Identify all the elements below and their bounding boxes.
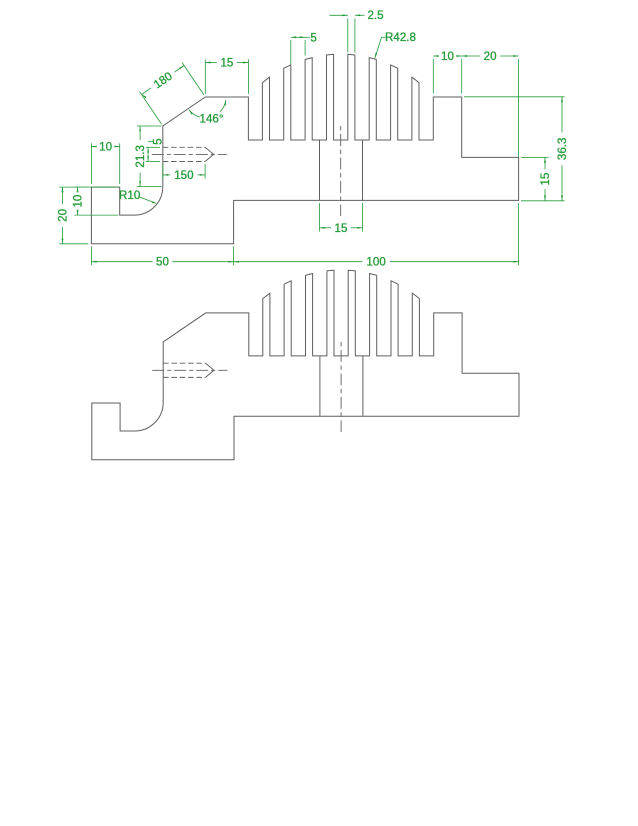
lower view tapped hole hidden line top (163, 362, 205, 364)
lower view tapped hole hidden line bottom (163, 376, 205, 378)
svg-text:10: 10 (441, 50, 454, 63)
svg-text:2.5: 2.5 (367, 9, 383, 22)
dimension 10 (432, 59, 434, 94)
svg-text:10: 10 (72, 195, 85, 208)
svg-text:36.3: 36.3 (556, 138, 569, 161)
top view slot wall right (362, 140, 364, 200)
dimension 100 (234, 261, 363, 263)
lower view hole axis centerline (152, 369, 227, 371)
lower view slot wall right (362, 356, 364, 416)
top view tapped hole hidden line bottom (163, 161, 205, 163)
svg-text:50: 50 (156, 256, 169, 269)
dimension 50 (90, 246, 92, 265)
svg-text:R42.8: R42.8 (385, 31, 416, 44)
svg-text:21.3: 21.3 (134, 145, 147, 168)
top view heatsink profile outline (91, 54, 518, 243)
leader R10 (139, 197, 156, 204)
lower view vertical centerline (340, 342, 342, 432)
svg-text:15: 15 (539, 173, 552, 186)
dimension 15 (204, 59, 206, 94)
svg-text:15: 15 (335, 222, 348, 235)
dimension 15 (319, 203, 321, 232)
dimension 15 (544, 157, 546, 169)
dimension 10 (74, 186, 118, 188)
dimension 36.3 (561, 97, 563, 133)
lower view heatsink profile outline (92, 270, 519, 459)
svg-text:5: 5 (152, 138, 165, 144)
dimension 150 (162, 164, 164, 179)
extension line 100 right (518, 203, 520, 265)
extension lines 36.3 (464, 96, 565, 98)
svg-text:R10: R10 (119, 189, 140, 202)
svg-text:20: 20 (57, 209, 70, 222)
dimension 180 (aligned) (142, 88, 151, 95)
dimension 5 (hole) (146, 146, 160, 148)
lower view drill point (206, 363, 215, 377)
svg-text:15: 15 (220, 57, 233, 70)
top view tapped hole hidden line top (163, 146, 205, 148)
lower view slot wall left (319, 356, 321, 416)
dimension 20 (462, 55, 481, 57)
dimension 5 (fin gap) (290, 40, 292, 65)
svg-text:5: 5 (310, 32, 316, 45)
extension line right edge (518, 59, 520, 157)
svg-text:20: 20 (484, 50, 497, 63)
dimension 20 (59, 186, 88, 188)
dimension 2.5 (fin width) (347, 18, 349, 52)
top view drill point (205, 147, 214, 161)
svg-text:146°: 146° (200, 113, 224, 126)
svg-text:150: 150 (174, 169, 193, 182)
dimension 21.3 (137, 125, 162, 127)
top view slot wall left (319, 140, 321, 200)
dimension 146 deg angle (220, 100, 226, 112)
svg-text:100: 100 (366, 256, 385, 269)
top view hole axis centerline (152, 153, 227, 155)
dimension 10 (90, 143, 92, 184)
top view vertical centerline (340, 126, 342, 216)
extension line right 15 (521, 156, 549, 158)
svg-text:10: 10 (99, 141, 112, 154)
leader R42.8 (375, 37, 382, 58)
